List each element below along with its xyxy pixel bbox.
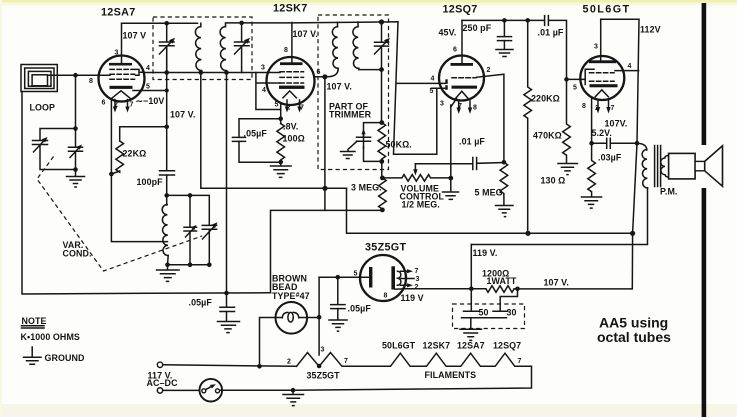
svg-text:6: 6	[453, 47, 457, 54]
svg-text:.05µF: .05µF	[189, 298, 213, 308]
svg-text:3: 3	[261, 65, 265, 72]
svg-text:107V.: 107V.	[605, 119, 628, 129]
svg-text:1/2 MEG.: 1/2 MEG.	[402, 200, 440, 210]
svg-text:107 V.: 107 V.	[327, 82, 352, 92]
svg-text:5.2V.: 5.2V.	[592, 128, 612, 138]
svg-text:3 MEG.: 3 MEG.	[351, 183, 382, 193]
svg-text:3: 3	[115, 50, 119, 57]
svg-text:4: 4	[431, 76, 435, 83]
svg-text:5 MEG.: 5 MEG.	[475, 188, 506, 198]
svg-text:2: 2	[595, 105, 599, 112]
svg-text:107 V.: 107 V.	[293, 29, 318, 39]
svg-text:7: 7	[344, 358, 348, 365]
svg-text:2: 2	[114, 102, 118, 109]
svg-text:.05µF: .05µF	[348, 304, 372, 314]
svg-text:45V.: 45V.	[439, 28, 457, 38]
svg-text:AC–DC: AC–DC	[147, 378, 179, 388]
svg-text:TRIMMER: TRIMMER	[329, 110, 372, 120]
svg-text:50: 50	[479, 308, 489, 318]
svg-text:TYPE#47: TYPE#47	[272, 291, 310, 301]
svg-text:250 pF: 250 pF	[463, 23, 492, 33]
svg-text:30: 30	[507, 308, 517, 318]
svg-text:5: 5	[146, 84, 150, 91]
svg-text:100pF: 100pF	[137, 177, 164, 187]
svg-text:119 V: 119 V	[401, 293, 424, 303]
svg-text:130 Ω: 130 Ω	[541, 176, 566, 186]
svg-text:107 V.: 107 V.	[544, 278, 569, 288]
svg-text:GROUND: GROUND	[45, 353, 86, 363]
svg-text:7: 7	[300, 105, 304, 112]
svg-text:7: 7	[130, 102, 134, 109]
svg-text:7: 7	[518, 358, 522, 365]
svg-text:LOOP: LOOP	[30, 103, 56, 113]
svg-text:∼−10V: ∼−10V	[136, 96, 165, 106]
svg-text:12SK7: 12SK7	[423, 341, 451, 351]
svg-text:35Z5GT: 35Z5GT	[365, 242, 407, 254]
svg-text:6: 6	[317, 69, 321, 76]
svg-text:12SQ7: 12SQ7	[493, 341, 521, 351]
svg-text:5: 5	[275, 102, 279, 109]
svg-text:35Z5GT: 35Z5GT	[307, 371, 341, 381]
svg-text:100Ω: 100Ω	[283, 134, 305, 144]
svg-text:FILAMENTS: FILAMENTS	[425, 370, 477, 380]
svg-text:8: 8	[473, 105, 477, 112]
svg-text:.8V.: .8V.	[283, 122, 298, 132]
svg-text:112V: 112V	[640, 25, 661, 35]
svg-text:12SQ7: 12SQ7	[443, 4, 478, 16]
svg-text:3: 3	[440, 101, 444, 108]
svg-text:107 V: 107 V	[123, 31, 147, 41]
svg-text:50L6GT: 50L6GT	[382, 341, 416, 351]
svg-text:22KΩ: 22KΩ	[123, 149, 147, 159]
svg-text:3: 3	[416, 276, 420, 283]
svg-text:2: 2	[487, 67, 491, 74]
svg-text:4: 4	[146, 65, 150, 72]
svg-text:220KΩ: 220KΩ	[531, 94, 560, 104]
svg-text:2: 2	[287, 359, 291, 366]
svg-text:8: 8	[89, 78, 93, 85]
svg-text:5: 5	[354, 271, 358, 278]
svg-text:1WATT: 1WATT	[487, 276, 517, 286]
svg-text:5: 5	[430, 88, 434, 95]
svg-text:50KΩ.: 50KΩ.	[386, 140, 412, 150]
svg-text:2: 2	[415, 284, 419, 291]
svg-text:12SK7: 12SK7	[273, 3, 308, 15]
svg-text:4: 4	[628, 63, 632, 70]
svg-text:470KΩ: 470KΩ	[533, 131, 562, 141]
svg-text:7: 7	[611, 105, 615, 112]
svg-text:NOTE: NOTE	[22, 316, 47, 326]
svg-text:5: 5	[573, 85, 577, 92]
svg-text:.01 µF: .01 µF	[538, 28, 564, 38]
svg-text:3: 3	[321, 347, 325, 354]
svg-text:107 V.: 107 V.	[170, 110, 195, 120]
svg-text:6: 6	[102, 100, 106, 107]
svg-text:7: 7	[458, 103, 462, 110]
svg-text:K•1000 OHMS: K•1000 OHMS	[21, 332, 80, 342]
svg-text:12SA7: 12SA7	[101, 7, 136, 19]
svg-text:.05µF: .05µF	[244, 129, 268, 139]
svg-text:3: 3	[594, 44, 598, 51]
svg-text:8: 8	[284, 47, 288, 54]
svg-text:12SA7: 12SA7	[457, 341, 485, 351]
svg-text:P.M.: P.M.	[660, 187, 678, 197]
svg-text:COND.: COND.	[63, 249, 92, 259]
svg-text:.01 µF: .01 µF	[459, 137, 485, 147]
svg-text:7: 7	[415, 268, 419, 275]
svg-text:octal tubes: octal tubes	[597, 329, 671, 345]
svg-text:119 V.: 119 V.	[473, 248, 498, 258]
svg-text:8: 8	[582, 103, 586, 110]
svg-text:4: 4	[262, 87, 266, 94]
svg-text:50L6GT: 50L6GT	[583, 4, 631, 16]
svg-text:2: 2	[287, 105, 291, 112]
svg-text:8: 8	[384, 293, 388, 300]
svg-text:.03µF: .03µF	[598, 153, 622, 163]
